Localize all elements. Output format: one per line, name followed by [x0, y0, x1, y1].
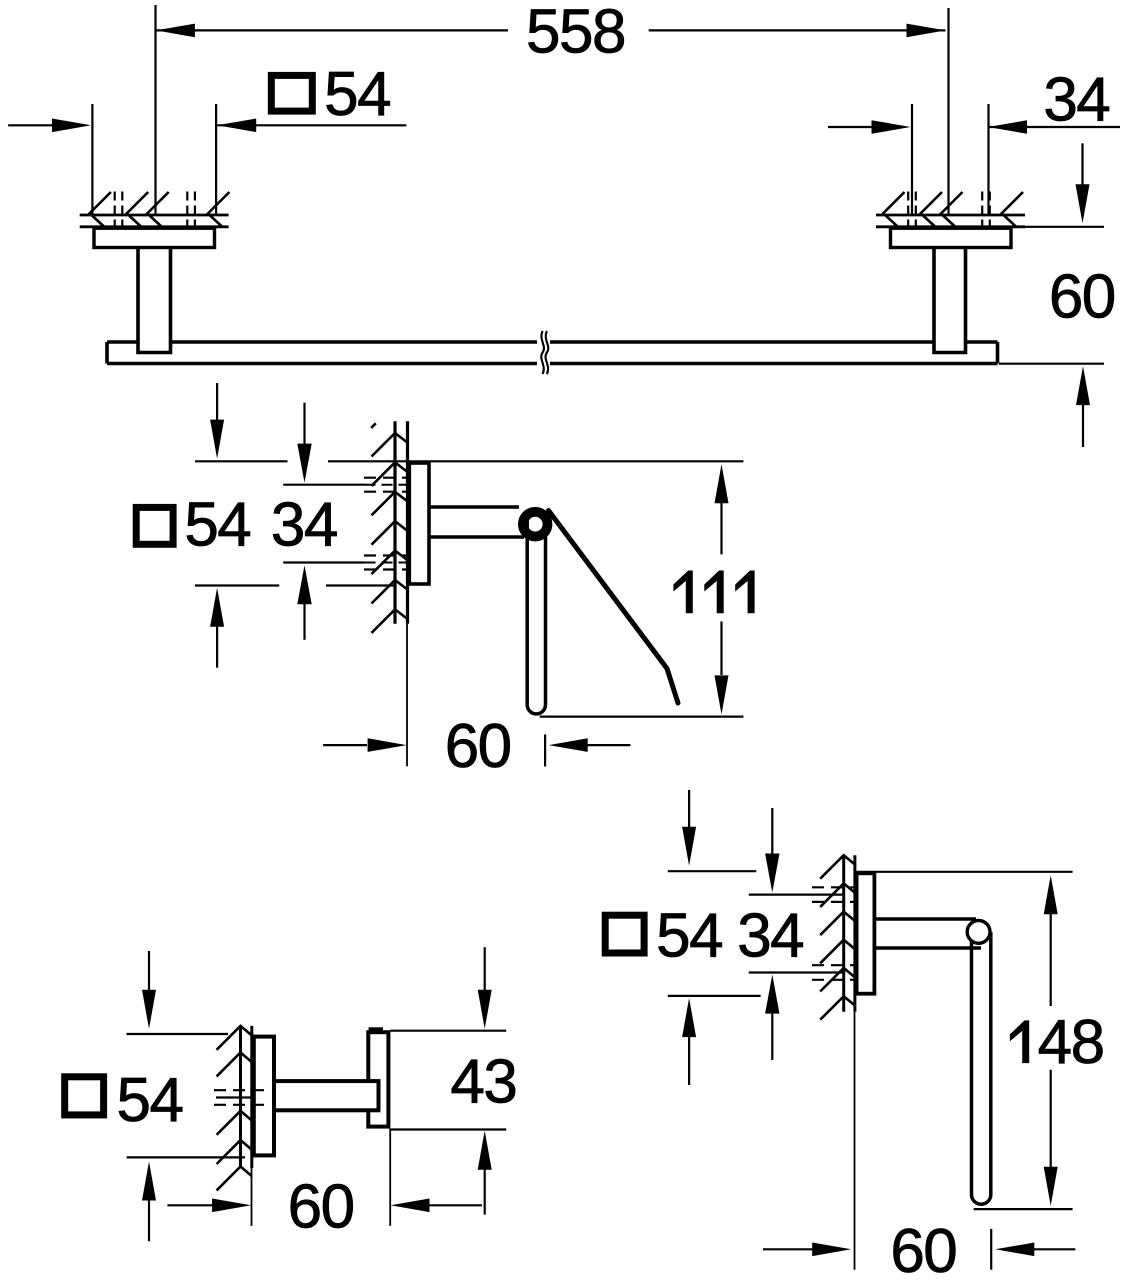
dim 54 top ext line	[195, 460, 407, 462]
dim 60 left line	[167, 1204, 213, 1206]
dim 54 up arrow	[682, 998, 696, 1037]
dim 148 down arrow	[1050, 1070, 1052, 1168]
lower screw edge dashes	[812, 965, 858, 980]
lower screw edge dashes	[364, 556, 408, 570]
screw center line	[216, 1096, 252, 1098]
right post centerline	[947, 8, 949, 214]
wall plate	[857, 873, 875, 993]
dim 54 bottom ext	[127, 1156, 245, 1158]
dim 148 text (custom 1 + 48)	[1010, 1020, 1029, 1063]
dim 558 line	[156, 29, 946, 31]
dim 43 top ext	[390, 1030, 506, 1032]
dim 54 arrow (at x=217.2 widening right)	[217, 119, 256, 133]
square symbol	[65, 1077, 104, 1115]
dim 34 up arrow	[765, 975, 779, 1014]
left post stem	[138, 249, 171, 353]
square symbol	[605, 915, 644, 953]
ring bar	[972, 932, 991, 1204]
wall line 2 thin extension to dim tick	[406, 624, 408, 767]
dim 60 right arrow	[995, 1243, 1034, 1257]
dim 60 left line	[763, 1248, 813, 1250]
dim 54 top lines	[8, 124, 406, 126]
upper screw center line	[283, 484, 364, 486]
dim 43 up arrow	[478, 1131, 492, 1170]
wall line 2 thin extension	[251, 1168, 253, 1226]
dim 111 text (custom Helvetica-like ones)	[673, 571, 754, 614]
left wall line 2	[80, 225, 229, 228]
dim 34 down arrow	[771, 808, 773, 855]
dim 111 down arrow	[720, 621, 722, 675]
hook bar	[368, 1032, 388, 1126]
dim 43 bottom ext	[390, 1128, 506, 1130]
dim 60 left arrow	[812, 1243, 851, 1257]
roller bar	[527, 520, 545, 714]
arm	[274, 1081, 379, 1110]
right wall hatch lower diagonals	[886, 216, 1017, 228]
right post stem	[934, 249, 966, 353]
dim 54 down arrow	[216, 383, 218, 421]
dim 60 down arrow	[1076, 184, 1090, 223]
dim 111 top ext already drawn, line	[407, 460, 743, 462]
wall line 2	[853, 855, 856, 1012]
wall hatch chevrons	[217, 1026, 252, 1191]
right wall line 2	[876, 225, 1025, 228]
svg-text:48: 48	[1038, 1008, 1104, 1077]
upper screw edge dashes	[364, 478, 408, 492]
dim 111 bottom ext line	[540, 715, 744, 717]
dim 60 left arrow	[368, 738, 407, 752]
dim 60 right arrow	[391, 1199, 430, 1213]
svg-text:43: 43	[450, 1048, 516, 1117]
wall line 2 thin extension	[854, 1012, 856, 1270]
wall line 2	[406, 421, 409, 624]
svg-text:54: 54	[184, 491, 250, 560]
pivot ring	[523, 512, 548, 537]
dim 54 up arrow	[142, 1162, 156, 1201]
svg-text:34: 34	[271, 491, 337, 560]
dim 54 top: square symbol	[271, 75, 312, 111]
dim 60 right tick	[544, 734, 546, 766]
dim 60 up arrow shaft	[1082, 404, 1084, 447]
dim 111 up arrow	[715, 464, 729, 503]
right wall line 1	[876, 214, 1025, 217]
wall hatch top tick	[371, 423, 376, 428]
square symbol	[136, 507, 173, 544]
wall line 1	[842, 855, 845, 1012]
wall line 2	[250, 1026, 253, 1168]
cover flap	[549, 511, 679, 704]
dim 54 bottom ext line	[195, 584, 394, 586]
svg-text:60: 60	[445, 712, 511, 781]
upper screw center line	[749, 893, 844, 895]
pivot circle	[967, 921, 990, 944]
left plate extension lines	[92, 104, 216, 214]
svg-text:54: 54	[324, 60, 390, 129]
dim 54 top ext	[668, 870, 757, 872]
left post plate	[94, 228, 215, 247]
dim 60 left arrow	[212, 1199, 251, 1213]
upper screw edge dashes	[812, 887, 858, 902]
svg-text:54: 54	[117, 1066, 183, 1135]
bar break gap	[537, 338, 550, 368]
dim 60 right ext lines	[999, 227, 1104, 364]
dim 34 top lines	[828, 126, 1120, 128]
left post centerline	[154, 5, 156, 214]
hook bar top bump	[369, 1027, 383, 1031]
dim 54 down arrow	[688, 790, 690, 828]
dim 34 arrow at 910.5	[872, 120, 911, 134]
dim 34 down arrow	[303, 403, 305, 445]
left wall hatch lower diagonals	[92, 216, 223, 228]
svg-text:54: 54	[656, 902, 722, 971]
dim 60 right tick	[990, 1229, 992, 1270]
svg-text:60: 60	[288, 1173, 354, 1242]
dim 60 down arrow shaft	[1081, 143, 1083, 186]
screw edge dashes	[214, 1090, 265, 1105]
dim 54 arrow (outside right-pointing at x=91)	[52, 119, 91, 133]
svg-text:34: 34	[737, 902, 803, 971]
dim 54 down arrow	[148, 951, 150, 991]
right screw dashed lines	[908, 192, 990, 228]
arm	[431, 507, 525, 537]
dim 558 arrow right	[907, 24, 946, 38]
dim 43 down arrow	[484, 947, 486, 991]
right wall hatch diagonals	[882, 192, 1023, 215]
left wall line 1	[80, 214, 229, 217]
svg-text:34: 34	[1043, 65, 1109, 134]
wall line 1	[239, 1026, 242, 1168]
lower screw center line	[283, 561, 364, 563]
lower screw center line	[749, 971, 844, 973]
dim 54 bottom ext	[668, 995, 761, 997]
dim 148 up arrow	[1044, 875, 1058, 914]
wall plate side view	[409, 463, 429, 584]
dim 558 arrow left	[156, 24, 195, 38]
dim 34 arrow at 988	[988, 120, 1027, 134]
wall line 1	[393, 421, 396, 624]
wall hatch chevrons	[820, 855, 855, 1020]
dim 148 bottom ext	[974, 1208, 1073, 1210]
dim 34 up arrow	[297, 565, 311, 604]
right screw extension lines	[912, 104, 989, 214]
dim 60 left line	[323, 744, 367, 746]
svg-text:60: 60	[1049, 263, 1115, 332]
right post plate	[891, 228, 1012, 247]
hook bar right edge extension down	[389, 1129, 391, 1226]
left screw dashed lines	[115, 192, 195, 228]
wall hatch chevrons	[372, 433, 408, 633]
dim 60 up arrow	[1076, 366, 1090, 405]
dim 148 top ext	[855, 871, 1073, 873]
dim 60 right arrow	[549, 738, 588, 752]
svg-text:558: 558	[526, 0, 625, 67]
bar rail	[107, 342, 998, 364]
arm	[874, 919, 981, 948]
bar break squiggle	[541, 331, 544, 374]
dim 54 up arrow	[210, 588, 224, 627]
left wall hatch diagonals	[88, 192, 229, 215]
wall plate	[254, 1037, 274, 1156]
dim 54 top ext	[127, 1033, 229, 1035]
svg-text:60: 60	[890, 1217, 956, 1280]
